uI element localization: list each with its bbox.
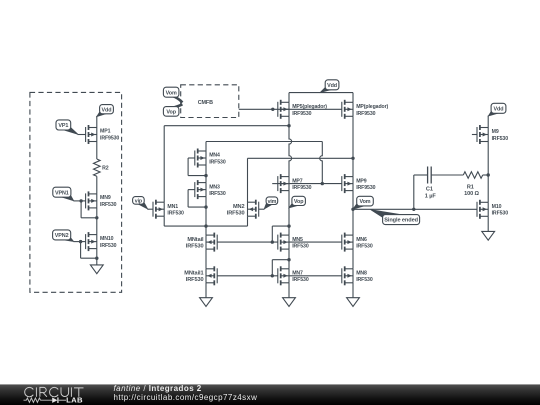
svg-text:IRF530: IRF530	[356, 277, 373, 283]
svg-text:vim: vim	[268, 199, 277, 205]
svg-text:IRF9530: IRF9530	[100, 135, 119, 141]
svg-text:MN2: MN2	[233, 204, 245, 210]
svg-text:VPN2: VPN2	[55, 233, 69, 239]
svg-text:IRF530: IRF530	[356, 244, 373, 250]
svg-text:IRF530: IRF530	[186, 244, 204, 250]
svg-text:CMFB: CMFB	[198, 100, 213, 106]
svg-text:MN3: MN3	[209, 184, 220, 190]
svg-text:IRF530: IRF530	[492, 136, 509, 142]
svg-text:IRF9530: IRF9530	[356, 185, 375, 191]
svg-text:Vom: Vom	[360, 199, 371, 205]
svg-text:IRF530: IRF530	[209, 191, 226, 197]
svg-text:Vom: Vom	[166, 90, 177, 96]
svg-text:MP5(plegador): MP5(plegador)	[292, 104, 327, 110]
svg-text:IRF9530: IRF9530	[292, 111, 311, 117]
svg-text:MP9: MP9	[356, 178, 367, 184]
svg-text:MP7: MP7	[292, 178, 303, 184]
svg-text:MN6: MN6	[356, 237, 367, 243]
svg-text:IRF530: IRF530	[292, 244, 309, 250]
svg-text:MN4: MN4	[209, 153, 220, 159]
svg-text:MNtail: MNtail	[187, 237, 204, 243]
svg-text:C1: C1	[426, 187, 433, 193]
svg-text:MP1: MP1	[100, 129, 111, 135]
svg-text:Vdd: Vdd	[494, 106, 504, 112]
svg-text:IRF530: IRF530	[227, 211, 245, 217]
svg-text:IRF530: IRF530	[167, 211, 184, 217]
svg-text:Vdd: Vdd	[102, 107, 112, 113]
svg-text:Vdd: Vdd	[327, 83, 337, 89]
svg-text:IRF530: IRF530	[100, 243, 117, 249]
svg-text:M10: M10	[492, 204, 502, 210]
svg-text:MN10: MN10	[100, 236, 114, 242]
svg-text:MP(plegador): MP(plegador)	[356, 104, 388, 110]
svg-text:MN5: MN5	[292, 237, 303, 243]
svg-text:Vop: Vop	[294, 199, 304, 205]
svg-text:MN8: MN8	[356, 270, 367, 276]
svg-text:LAB: LAB	[66, 395, 83, 404]
svg-text:VPN1: VPN1	[55, 190, 69, 196]
svg-text:IRF530: IRF530	[100, 202, 117, 208]
svg-text:Single ended: Single ended	[384, 218, 418, 224]
svg-text:M9: M9	[492, 129, 499, 135]
svg-text:MNtail1: MNtail1	[184, 270, 203, 276]
svg-text:MN9: MN9	[100, 195, 111, 201]
svg-text:R1: R1	[467, 184, 474, 190]
svg-text:MN7: MN7	[292, 270, 303, 276]
svg-text:IRF530: IRF530	[492, 211, 509, 217]
svg-text:vip: vip	[135, 199, 142, 205]
svg-text:IRF530: IRF530	[292, 277, 309, 283]
svg-text:VP1: VP1	[58, 123, 68, 129]
svg-text:IRF530: IRF530	[186, 277, 204, 283]
svg-text:Vop: Vop	[166, 110, 176, 116]
svg-text:R2: R2	[102, 166, 109, 172]
svg-text:IRF9530: IRF9530	[292, 185, 311, 191]
svg-text:IRF530: IRF530	[209, 159, 226, 165]
svg-text:MN1: MN1	[167, 204, 178, 210]
svg-text:100 Ω: 100 Ω	[464, 191, 479, 197]
svg-text:1 µF: 1 µF	[425, 193, 437, 199]
svg-text:IRF9530: IRF9530	[356, 111, 375, 117]
